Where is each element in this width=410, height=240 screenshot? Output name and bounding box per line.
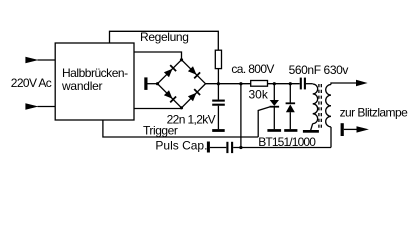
wire Q1 gate xyxy=(258,107,270,137)
capacitor C3 pulse cap xyxy=(226,142,228,153)
capacitor C1 22n 1,2kV xyxy=(217,84,219,100)
node rail junction D xyxy=(289,82,292,85)
transformer TR1 secondary winding xyxy=(326,85,331,127)
diode D5 anode wire xyxy=(289,112,291,129)
wire bridge diamond edges xyxy=(158,60,206,108)
resistor R2 30k xyxy=(251,81,268,87)
node rail junction B xyxy=(239,82,242,85)
wire pulse line left xyxy=(210,147,226,149)
diode D5 cathode wire xyxy=(289,84,291,103)
svg-text:22n 1,2kV: 22n 1,2kV xyxy=(167,113,216,127)
transformer core xyxy=(318,84,320,128)
wire R1 bottom to rail xyxy=(217,69,219,84)
wire main HV rail xyxy=(206,83,251,85)
wire box to bridge top xyxy=(134,52,182,60)
terminal bar C1 bottom xyxy=(212,129,225,132)
thyristor Q1 triangle xyxy=(270,100,279,106)
arrow output top xyxy=(356,80,368,86)
wire TR1 primary bottom lead xyxy=(311,124,313,131)
wire AC input line 1 xyxy=(38,59,56,61)
node rail junction A xyxy=(217,82,220,85)
svg-text:Puls Cap.: Puls Cap. xyxy=(155,138,207,152)
wire Regelung loop xyxy=(110,31,219,50)
converter block U1 Halbbrueckenwandler xyxy=(55,43,134,120)
resistor R1 regulation feedback xyxy=(215,50,221,68)
svg-text:wandler: wandler xyxy=(61,79,103,93)
terminal bar output bottom xyxy=(341,123,344,136)
wire terminal to bridge left vertex xyxy=(148,83,158,85)
thyristor Q1 cathode bar xyxy=(270,106,280,108)
svg-text:220V Ac: 220V Ac xyxy=(11,76,52,90)
wire TR1 secondary bottom lead xyxy=(330,127,332,148)
node bridge left vertex xyxy=(156,82,159,85)
svg-text:zur Blitzlampe: zur Blitzlampe xyxy=(340,105,409,119)
arrow AC input 1 xyxy=(25,57,38,64)
svg-text:Regelung: Regelung xyxy=(140,30,189,44)
capacitor C2 560nF 630v xyxy=(300,78,302,90)
node rail junction C xyxy=(273,82,276,85)
arrow AC input 2 xyxy=(25,103,38,110)
terminal bar pulse cap left xyxy=(207,142,210,153)
bridge diode D2 (top-right edge) xyxy=(188,66,197,75)
terminal bar TR1 primary xyxy=(303,130,319,133)
svg-text:560nF 630v: 560nF 630v xyxy=(289,63,349,77)
wire trigger drop and line xyxy=(103,120,258,137)
wire TR1 secondary top lead to output xyxy=(331,83,356,85)
transformer TR1 primary winding xyxy=(313,84,318,124)
wire AC input line 2 xyxy=(38,106,56,108)
thyristor Q1 cathode wire xyxy=(273,107,275,130)
terminal bar bridge AC input xyxy=(144,77,147,90)
terminal bar Q1 cathode xyxy=(267,129,281,132)
node bridge top vertex xyxy=(180,58,183,61)
node bridge bottom vertex xyxy=(180,106,183,109)
diode D5 triangle xyxy=(286,104,295,112)
wire box to bridge bottom xyxy=(134,107,182,110)
bridge diode D3 (left-bottom edge) xyxy=(164,90,173,99)
node pulse line junction xyxy=(239,146,242,149)
bridge diode D1 (left-top edge) xyxy=(164,69,173,78)
thyristor Q1 BT151 anode wire xyxy=(273,84,275,100)
diode D5 cathode bar xyxy=(286,102,296,104)
arrow output bottom xyxy=(357,126,369,132)
wire junction B down to pulse line xyxy=(240,84,242,148)
bridge diode D4 (bottom-right edge) xyxy=(188,93,197,102)
wire output bottom xyxy=(344,128,357,130)
svg-text:Halbbrücken-: Halbbrücken- xyxy=(62,66,128,80)
svg-text:30k: 30k xyxy=(249,87,269,101)
svg-text:ca. 800V: ca. 800V xyxy=(231,62,274,76)
svg-text:BT151/1000: BT151/1000 xyxy=(258,135,316,149)
terminal bar D5 anode xyxy=(284,129,297,132)
wire pulse line right xyxy=(233,147,331,149)
